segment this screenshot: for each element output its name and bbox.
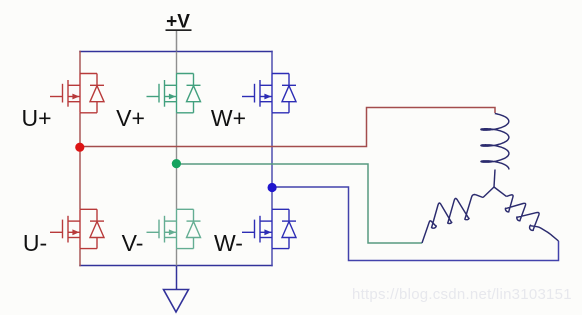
svg-text:V-: V- <box>122 230 144 256</box>
motor winding phase V (lower-left coil) <box>422 187 494 243</box>
body diode D5 <box>272 74 296 113</box>
wire bottom ground rail <box>79 265 272 267</box>
body diode D3 <box>177 74 201 113</box>
body diode D4 <box>177 209 201 248</box>
node V junction dot <box>172 159 181 168</box>
wire W phase column <box>271 51 273 267</box>
wire W phase output to motor <box>272 187 559 261</box>
body diode D2 <box>80 209 104 248</box>
+V underline <box>166 29 192 31</box>
svg-text:U+: U+ <box>21 105 51 131</box>
body diode D6 <box>272 209 296 248</box>
ground <box>164 290 189 313</box>
wire V phase output to motor <box>177 164 423 243</box>
wire V phase column <box>176 52 178 267</box>
transistor Q5 W+ high-side MOSFET <box>242 74 272 113</box>
transistor Q1 U+ high-side MOSFET <box>50 74 80 113</box>
body diode D1 <box>80 74 104 113</box>
motor winding phase U (top coil) <box>481 114 509 188</box>
wire ground stem <box>176 266 178 290</box>
transistor Q2 U- low-side MOSFET <box>50 209 80 248</box>
transistor Q6 W- low-side MOSFET <box>242 209 272 248</box>
svg-text:W+: W+ <box>211 105 246 131</box>
wire +V feed <box>176 31 178 52</box>
node W junction dot <box>268 183 277 192</box>
svg-text:W-: W- <box>214 230 243 256</box>
node U junction dot <box>75 143 84 152</box>
wire U phase column <box>79 51 81 267</box>
svg-text:U-: U- <box>23 230 47 256</box>
svg-text:V+: V+ <box>116 105 145 131</box>
transistor Q4 V- low-side MOSFET <box>147 209 177 248</box>
wire U phase output to motor <box>80 108 495 147</box>
motor winding phase W (lower-right coil) <box>494 187 559 241</box>
svg-text:https://blog.csdn.net/lin31031: https://blog.csdn.net/lin3103151 <box>352 286 572 303</box>
transistor Q3 V+ high-side MOSFET <box>147 74 177 113</box>
wire top +V rail <box>79 51 272 53</box>
